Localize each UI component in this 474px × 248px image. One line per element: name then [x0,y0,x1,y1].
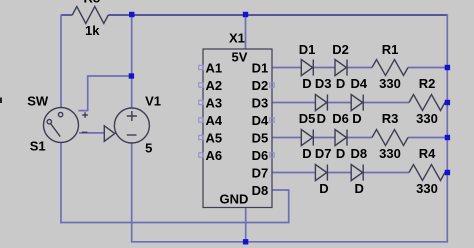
switch lever [51,124,61,137]
edge artifact mark [0,98,2,104]
wire row2 segments [272,102,315,104]
junction bus row3 [445,135,450,140]
wire bottom D8 net horizontal [60,222,289,224]
pin square A5 [199,135,203,139]
svg-text:D: D [302,76,311,91]
svg-text:D: D [336,146,345,161]
junction GND [243,239,248,244]
diode D5 [301,130,313,146]
pin square A2 [199,83,203,87]
svg-text:GND: GND [220,191,249,206]
svg-text:S1: S1 [30,139,46,154]
V1 minus mark [127,134,137,136]
svg-text:D8: D8 [350,146,367,161]
junction bus row2 [445,100,450,105]
switch S1 body circle [44,108,79,143]
svg-text:D3: D3 [315,76,332,91]
wire right bus vertical [446,15,448,243]
svg-text:D: D [336,76,345,91]
svg-text:D: D [352,111,361,126]
wire row4 segments [272,172,315,174]
control arrow triangle [104,126,115,142]
wire branch to SW plus stub [78,110,88,112]
svg-text:D: D [317,111,326,126]
svg-text:5V: 5V [232,50,248,65]
wire V1 bottom vertical [131,143,133,242]
IC X1 body [203,49,272,208]
svg-text:V1: V1 [145,94,161,109]
svg-text:SW: SW [27,94,49,109]
junction top rail / 5V pin [243,12,248,17]
svg-text:D1: D1 [252,60,269,75]
svg-text:D4: D4 [252,113,269,128]
pin square A6 [199,153,203,157]
resistor R1 zigzag [372,60,408,76]
pin square D6 [270,153,274,157]
svg-text:A6: A6 [206,148,223,163]
wire SW bottom vertical [60,142,62,223]
svg-text:D7: D7 [315,146,332,161]
wire SW output to triangle [79,132,104,134]
junction bus row4 [445,170,450,175]
svg-text:5: 5 [145,141,152,156]
svg-text:X1: X1 [229,30,245,45]
svg-text:R1: R1 [382,42,399,57]
wire top rail right segment [108,14,447,16]
svg-text:D5: D5 [299,111,316,126]
diode D4 [351,95,363,111]
resistor R4 zigzag [409,165,445,181]
switch contact top [58,112,62,116]
pin square D2 [270,83,274,87]
svg-text:A2: A2 [206,78,223,93]
wire D8 pin stub [272,189,290,191]
wire 5V pin [245,14,247,49]
diode D7 [315,165,327,181]
svg-text:D: D [302,146,311,161]
svg-text:A1: A1 [206,60,223,75]
switch minus mark [82,131,88,133]
wire left vertical to SW top [60,15,62,108]
V1 plus mark [127,111,137,121]
wire branch to SW plus horizontal [88,75,132,77]
svg-text:1k: 1k [85,23,100,38]
wire D8 net vertical riser [288,190,290,223]
pin square A1 [199,65,203,69]
diode D8 [351,165,363,181]
pin square D4 [270,118,274,122]
pin square A4 [199,118,203,122]
svg-text:D: D [319,181,328,196]
svg-text:D8: D8 [252,183,269,198]
svg-text:A3: A3 [206,95,223,110]
resistor R3 zigzag [372,130,408,146]
wire row1 segments [272,67,301,69]
pin square A3 [199,100,203,104]
wire GND bottom rail [131,241,447,243]
svg-text:D3: D3 [252,95,269,110]
svg-text:D2: D2 [332,42,349,57]
svg-text:D6: D6 [332,111,349,126]
svg-text:330: 330 [379,76,401,91]
svg-text:D7: D7 [252,165,269,180]
switch plus mark [82,112,88,118]
wire top rail left segment [61,14,72,16]
resistor R2 zigzag [409,95,445,111]
source V1 body circle [114,108,149,143]
svg-text:D1: D1 [299,42,316,57]
diode D3 [315,95,327,111]
wire GND pin [245,208,247,242]
svg-text:330: 330 [379,146,401,161]
svg-text:D2: D2 [252,78,269,93]
resistor R8 1k zigzag [72,7,108,24]
svg-text:R8: R8 [84,0,101,5]
svg-text:D4: D4 [350,76,367,91]
junction top rail / V1 [129,12,134,17]
svg-text:D6: D6 [252,148,269,163]
switch contact left [47,120,51,124]
svg-text:R4: R4 [419,146,436,161]
diode D1 [301,60,313,76]
svg-text:R3: R3 [382,111,399,126]
junction bus row1 [445,65,450,70]
wire branch to SW plus vertical [87,75,89,110]
svg-text:A4: A4 [206,113,223,128]
wire row3 segments [272,137,301,139]
svg-text:R2: R2 [419,76,436,91]
diode D2 [335,60,347,76]
svg-text:A5: A5 [206,130,223,145]
svg-text:330: 330 [416,181,438,196]
svg-text:D5: D5 [252,130,269,145]
junction V plus branch [129,73,134,78]
svg-text:330: 330 [416,111,438,126]
svg-text:D: D [355,181,364,196]
wire V plus vertical from top rail to V1 [131,15,133,109]
diode D6 [335,130,347,146]
